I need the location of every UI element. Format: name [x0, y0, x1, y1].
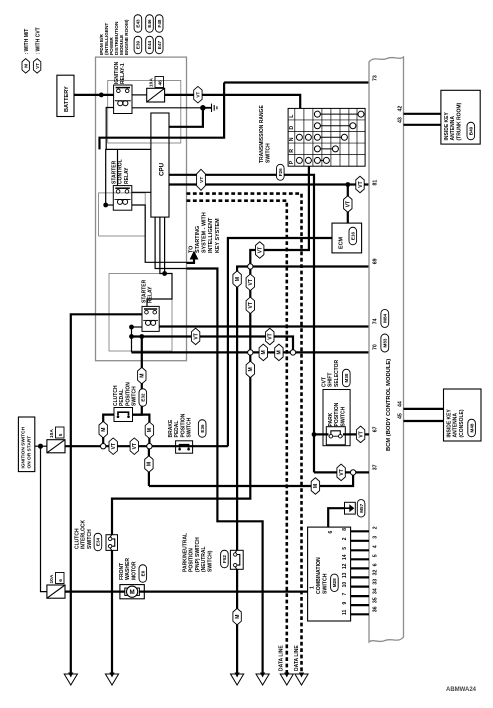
connector E39 — [134, 36, 142, 54]
svg-text:E47: E47 — [157, 40, 162, 49]
svg-text:5: 5 — [373, 554, 379, 557]
svg-text:37: 37 — [373, 464, 379, 470]
hexagon M on PNP branch — [233, 271, 241, 288]
svg-text:81: 81 — [373, 180, 379, 186]
svg-text:9: 9 — [342, 601, 348, 604]
svg-text:5: 5 — [342, 547, 348, 550]
svg-text:2: 2 — [373, 526, 379, 529]
svg-text:RELAY-1: RELAY-1 — [120, 63, 126, 84]
arrow to PNP — [235, 673, 240, 678]
hexagon M clutch left — [99, 421, 107, 438]
connector E46 — [146, 15, 154, 33]
wire M/T branch to pin 37 — [149, 472, 353, 486]
inside key antenna trunk room — [441, 90, 480, 144]
wire park switch to BCM pin 67 — [314, 433, 369, 435]
fuse 10A 5 — [47, 440, 65, 453]
legend hexagon VT : WITH CVT — [33, 59, 40, 74]
svg-text:CPU: CPU — [159, 162, 166, 176]
svg-text:E43: E43 — [136, 19, 141, 28]
hexagon M on pin37 branch — [311, 478, 319, 495]
connector E43 — [134, 15, 142, 33]
wire BCM 43 to trunk antenna — [404, 124, 441, 126]
connector M83 — [381, 334, 389, 352]
svg-text:INTELLIGENT: INTELLIGENT — [208, 217, 214, 253]
legend hexagon M : WITH M/T — [22, 59, 29, 74]
clutch pedal position switch — [114, 408, 133, 422]
IPDM sub-box starter control relay circuit — [99, 193, 146, 236]
wire BCM pin 70 net — [132, 351, 370, 353]
wire M/T park-neutral branch — [237, 267, 250, 551]
splice pin70 right — [290, 350, 295, 355]
svg-text:ENGINE ROOM): ENGINE ROOM) — [124, 19, 129, 55]
svg-text:F48: F48 — [157, 19, 162, 27]
svg-text:BCM (BODY CONTROL MODULE): BCM (BODY CONTROL MODULE) — [386, 359, 392, 451]
fuse 10A 6 — [47, 585, 65, 598]
svg-text:F52: F52 — [222, 555, 227, 563]
svg-text:BATTERY: BATTERY — [64, 86, 70, 112]
wire starter control relay coil return to starting system arrow — [132, 205, 187, 262]
svg-text:6: 6 — [328, 531, 334, 534]
svg-text:TRANSMISSION RANGE: TRANSMISSION RANGE — [259, 105, 265, 163]
svg-text:35: 35 — [373, 597, 379, 603]
wire ignition feed down to fuse 6 — [41, 446, 47, 591]
svg-text:VT: VT — [199, 177, 205, 183]
svg-text:VT: VT — [258, 247, 264, 253]
connector E32 — [139, 389, 147, 407]
wire CPU to BCM pin 81 and ECM — [169, 183, 369, 185]
svg-text:E39: E39 — [136, 40, 141, 49]
park neutral position switch — [230, 550, 243, 569]
wire data line CAN-L dashed — [187, 201, 287, 673]
svg-text:6: 6 — [58, 579, 64, 582]
wire starter control relay contact to CPU — [132, 191, 152, 193]
wire BCM pin 37 net — [314, 471, 369, 473]
svg-text:M: M — [140, 374, 146, 378]
svg-text:2: 2 — [342, 537, 348, 540]
svg-text:14: 14 — [342, 554, 348, 560]
svg-text:4: 4 — [373, 545, 379, 548]
svg-text:STARTER: STARTER — [112, 160, 118, 184]
svg-text:M38: M38 — [344, 373, 349, 382]
splice pin 37 — [350, 470, 355, 475]
svg-text:PARK: PARK — [328, 412, 334, 426]
svg-text:VT: VT — [35, 63, 40, 69]
IPDM sub-box ignition relay circuit — [108, 81, 181, 144]
junction ECM branch — [345, 182, 350, 187]
wire CPU pin to PNP feed — [155, 217, 186, 268]
wire splice B down to pin37 branch — [148, 446, 150, 486]
splice clutch B — [147, 444, 152, 449]
hexagon VT on ECM wire — [344, 196, 352, 213]
connector F48 — [155, 15, 163, 33]
ground symbol — [203, 107, 212, 109]
wire combination switch to M57 — [328, 508, 344, 527]
wire BCM 45 to console antenna — [404, 420, 444, 422]
svg-text:CLUTCH: CLUTCH — [75, 528, 81, 549]
wire coil junction link — [131, 327, 133, 352]
svg-text:34: 34 — [373, 588, 379, 594]
wire data line CAN-H dashed — [187, 194, 302, 673]
connector F52 — [221, 550, 229, 568]
svg-text:M57: M57 — [359, 503, 364, 512]
svg-text:CLUTCH: CLUTCH — [113, 385, 119, 406]
wire starter relay output to starter motor — [71, 314, 142, 672]
hexagon VT on CPU outputs — [197, 169, 206, 190]
svg-text:DATA LINE: DATA LINE — [294, 645, 300, 671]
wire TRS output to splices — [112, 166, 309, 535]
svg-text:F26: F26 — [278, 168, 283, 176]
hexagon VT on starter cut wire — [191, 328, 199, 345]
wire starter relay coil right to BCM pin 74 — [159, 325, 369, 327]
svg-text:VT: VT — [339, 469, 345, 475]
svg-text:13: 13 — [342, 572, 348, 578]
svg-text:POSITION: POSITION — [125, 382, 131, 406]
wire BCM 42 to trunk antenna — [404, 113, 441, 115]
wire BCM pin 69 net — [250, 265, 369, 267]
connector E6 — [139, 565, 147, 583]
svg-text:E36: E36 — [200, 424, 205, 433]
hexagon VT on starter cut wire b — [266, 328, 274, 345]
arrow to clutch interlock — [109, 673, 114, 678]
svg-text:SWITCH: SWITCH — [87, 529, 93, 549]
svg-text:M: M — [277, 350, 283, 354]
connector M57 to body harness — [345, 502, 356, 514]
svg-text:TO: TO — [188, 246, 194, 253]
connector F26 — [277, 164, 285, 180]
svg-text:VT: VT — [358, 431, 364, 437]
IPDM sub-box starter relay circuit — [109, 274, 172, 352]
svg-text:STARTER: STARTER — [142, 279, 148, 303]
wire ignition relay output to CPU — [169, 108, 203, 127]
connector E36 — [198, 420, 206, 438]
splice clutch A — [101, 444, 106, 449]
svg-text:POSITION: POSITION — [334, 402, 340, 426]
svg-text:PARK/NEUTRAL: PARK/NEUTRAL — [183, 533, 189, 572]
svg-text:VT: VT — [132, 443, 138, 449]
svg-text:VT: VT — [111, 443, 117, 449]
svg-text:FRONT: FRONT — [119, 563, 125, 580]
svg-text:N: N — [289, 137, 295, 141]
svg-text:E32: E32 — [141, 393, 146, 402]
arrow to data line L — [284, 673, 289, 678]
svg-text:WASHER: WASHER — [125, 558, 131, 580]
svg-text:ECM: ECM — [339, 237, 345, 249]
wire clutch interlock to ground arrow — [111, 550, 113, 672]
svg-text:36: 36 — [373, 606, 379, 612]
svg-text:SELECTOR: SELECTOR — [334, 359, 340, 387]
hexagon VT main b — [130, 438, 138, 455]
svg-text:M48: M48 — [469, 423, 474, 432]
svg-text:VT: VT — [196, 92, 201, 98]
connector M38 — [343, 369, 351, 387]
wire PNP switch to ground arrow — [236, 569, 238, 672]
svg-text:VT: VT — [193, 333, 199, 339]
svg-text:11: 11 — [342, 609, 348, 615]
svg-text:8: 8 — [342, 528, 348, 531]
hexagon M pin70 b — [275, 344, 283, 361]
svg-text:M: M — [261, 350, 267, 354]
svg-text:33: 33 — [373, 579, 379, 585]
wire ignition relay-1 coil feed — [106, 108, 113, 150]
svg-text:42: 42 — [398, 106, 404, 112]
svg-text:M84: M84 — [383, 313, 388, 322]
svg-text:PEDAL: PEDAL — [174, 421, 180, 438]
svg-text:VT: VT — [248, 302, 254, 308]
svg-text:69: 69 — [373, 258, 379, 264]
svg-text:M28: M28 — [332, 578, 337, 587]
wire to starting system with intelligent key — [187, 257, 195, 263]
battery — [57, 75, 74, 116]
front washer motor — [120, 585, 144, 599]
svg-text:E6: E6 — [141, 570, 146, 576]
hexagon M below pin70 splice — [246, 361, 254, 378]
svg-text:1: 1 — [310, 586, 316, 589]
svg-text:POSITION: POSITION — [189, 548, 195, 572]
svg-text:MOTOR: MOTOR — [131, 561, 137, 580]
svg-text:10A: 10A — [149, 78, 155, 87]
connector E47 — [155, 36, 163, 54]
svg-text:44: 44 — [398, 401, 404, 407]
svg-text:ANTENNA: ANTENNA — [453, 413, 459, 438]
ECM — [332, 223, 362, 253]
wire clutch switch left branch — [103, 415, 114, 447]
clutch interlock switch — [106, 535, 118, 551]
wire fuse 46 output through VT to transmission range switch — [165, 95, 301, 109]
svg-text:B49: B49 — [469, 126, 474, 135]
svg-text:RELAY: RELAY — [124, 167, 130, 184]
wire CPU pin to starter relay — [147, 217, 172, 306]
svg-text:PEDAL: PEDAL — [119, 389, 125, 406]
svg-text:M: M — [23, 64, 29, 68]
svg-text:45: 45 — [398, 413, 404, 419]
svg-text:10A: 10A — [49, 429, 55, 438]
svg-text:12: 12 — [342, 563, 348, 569]
wire ignition relay-1 coil to ground — [132, 107, 203, 109]
hexagon VT main a — [109, 438, 117, 455]
svg-text:(CONSOLE): (CONSOLE) — [459, 409, 465, 437]
wire battery to ignition relay-1 — [74, 94, 114, 96]
svg-text:M: M — [147, 462, 153, 466]
svg-text:SWITCH: SWITCH — [132, 386, 138, 406]
junction starter relay coil — [129, 325, 134, 330]
svg-text:SYSTEM - WITH: SYSTEM - WITH — [202, 212, 208, 253]
wire starter relay coil left — [132, 326, 143, 328]
svg-text:SWITCH): SWITCH) — [207, 550, 213, 572]
brake pedal position switch — [176, 441, 193, 453]
hexagon M above clutch switch — [138, 367, 146, 384]
connector M84 — [381, 309, 389, 327]
svg-text:M83: M83 — [383, 338, 388, 347]
IPDM E/R module box — [96, 57, 187, 361]
svg-text:STARTING: STARTING — [195, 226, 201, 253]
svg-text:VT: VT — [346, 201, 352, 207]
wire vertical battery branch — [100, 83, 225, 150]
svg-text:RELAY: RELAY — [148, 286, 154, 303]
svg-text:10A: 10A — [49, 574, 55, 583]
junction ignition feed — [38, 444, 43, 449]
svg-text:M: M — [313, 484, 319, 488]
svg-text:43: 43 — [398, 117, 404, 123]
hexagon VT on TRS output — [256, 242, 264, 259]
svg-text:3: 3 — [373, 536, 379, 539]
CVT shift selector box — [323, 390, 350, 446]
BCM body control module bar — [369, 57, 404, 642]
hexagon VT pin 37 — [337, 464, 345, 481]
hexagon M pin70 a — [259, 344, 267, 361]
wire CPU pin junction starter relay — [164, 217, 166, 273]
arrow to starter motor — [68, 673, 73, 678]
wire accessory feed to combination switch — [65, 590, 308, 592]
svg-text:E16: E16 — [351, 231, 356, 240]
svg-text:74: 74 — [373, 318, 379, 324]
combination switch box — [308, 527, 351, 621]
svg-text:SWITCH: SWITCH — [265, 143, 271, 163]
svg-text:IGNITION: IGNITION — [114, 61, 120, 84]
svg-text:: WITH CVT: : WITH CVT — [36, 27, 42, 54]
hexagon VT near BCM pin 81 — [356, 176, 364, 193]
hexagon VT variant a — [246, 274, 254, 291]
svg-text:(PNP) SWITCH: (PNP) SWITCH — [195, 537, 201, 572]
inside key antenna console — [444, 389, 482, 441]
wire branch to BCM pin 73 — [224, 81, 369, 83]
svg-text:VT: VT — [248, 279, 254, 285]
hexagon M below PNP — [233, 608, 241, 625]
wire IPDM to PNP column — [187, 269, 263, 673]
svg-text:R: R — [289, 149, 295, 153]
svg-text:INSIDE KEY: INSIDE KEY — [447, 408, 453, 437]
arrow to data line H — [299, 673, 304, 678]
wire ECM to brake switch chain — [228, 238, 332, 446]
svg-text:ON OR START: ON OR START — [26, 436, 32, 469]
svg-text:SWITCH: SWITCH — [340, 406, 346, 426]
wire CPU to park position switch — [169, 175, 314, 473]
splice pin69 — [248, 264, 253, 269]
svg-text:ABMWA24: ABMWA24 — [446, 687, 477, 693]
svg-text:SWITCH: SWITCH — [323, 573, 329, 594]
wire ignition relay-1 to fuse 46 — [132, 94, 147, 96]
svg-text:INTERLOCK: INTERLOCK — [81, 519, 87, 549]
svg-text:D: D — [289, 126, 295, 130]
splice pin70 left — [248, 350, 253, 355]
svg-text:KEY SYSTEM: KEY SYSTEM — [215, 218, 221, 253]
hexagon M splice B down — [145, 456, 153, 473]
svg-text:E34: E34 — [96, 537, 101, 546]
svg-text:P: P — [289, 160, 295, 164]
connector M28 — [331, 574, 339, 592]
junction ground node — [200, 105, 206, 111]
svg-text:BRAKE: BRAKE — [168, 419, 174, 437]
svg-text:32: 32 — [373, 570, 379, 576]
svg-text:10: 10 — [342, 582, 348, 588]
svg-text:5: 5 — [58, 433, 64, 436]
svg-text:VT: VT — [358, 181, 364, 187]
svg-text:73: 73 — [373, 75, 379, 81]
svg-text:70: 70 — [373, 344, 379, 350]
svg-text:E44: E44 — [147, 40, 152, 49]
svg-text:: WITH M/T: : WITH M/T — [24, 29, 30, 55]
connector E44 — [146, 36, 154, 54]
arrow to PNP feed — [260, 673, 265, 678]
svg-text:67: 67 — [373, 426, 379, 432]
svg-text:6: 6 — [373, 563, 379, 566]
svg-text:7: 7 — [342, 592, 348, 595]
hexagon VT variant b — [246, 297, 254, 314]
wire fuse5 to clutch-brake chain — [65, 445, 228, 447]
ignition switch — [18, 417, 34, 472]
svg-text:M: M — [101, 428, 107, 432]
junction starter control relay coil — [103, 203, 108, 208]
CPU box — [151, 113, 169, 217]
park position switch — [326, 427, 345, 445]
junction battery feed — [99, 93, 104, 98]
wire starter control to CVT park switch path — [132, 337, 294, 353]
svg-text:M: M — [235, 277, 241, 281]
svg-text:POSITION: POSITION — [180, 413, 186, 437]
svg-text:VT: VT — [268, 333, 274, 339]
svg-text:M: M — [248, 367, 254, 371]
wire ignition switch to fuse 5 — [35, 445, 47, 447]
svg-text:CONTROL: CONTROL — [118, 159, 124, 184]
hexagon VT on battery wire — [194, 86, 202, 103]
svg-text:INSIDE KEY: INSIDE KEY — [444, 111, 450, 140]
svg-text:46: 46 — [157, 80, 163, 86]
svg-text:CVT: CVT — [321, 377, 327, 387]
svg-text:E46: E46 — [147, 19, 152, 28]
hexagon VT pin 67 — [356, 426, 364, 443]
svg-text:DATA LINE: DATA LINE — [278, 645, 284, 671]
hexagon M splice B up — [145, 422, 153, 439]
svg-text:M: M — [130, 589, 135, 596]
svg-text:M: M — [147, 428, 153, 432]
wire CPU to starter control relay coil — [106, 149, 152, 205]
svg-text:M: M — [235, 615, 241, 619]
wire BCM 44 to console antenna — [404, 408, 444, 410]
fuse 10A 46 — [147, 88, 165, 102]
svg-text:IGNITION SWITCH: IGNITION SWITCH — [20, 426, 26, 468]
junction park switch feed — [312, 432, 317, 437]
svg-text:(TRUNK ROOM): (TRUNK ROOM) — [456, 102, 462, 140]
svg-text:COMBINATION: COMBINATION — [316, 557, 322, 594]
wire clutch switch M/T feed — [133, 337, 142, 415]
svg-text:(NEUTRAL: (NEUTRAL — [201, 546, 207, 572]
wire splice B up — [133, 415, 150, 447]
transmission range switch grid — [288, 108, 365, 166]
svg-text:SWITCH: SWITCH — [187, 417, 193, 437]
connector E34 — [94, 533, 102, 551]
svg-text:SHIFT: SHIFT — [328, 373, 334, 387]
wire to ECM — [347, 185, 349, 224]
wire starter control relay contact feed — [117, 149, 119, 185]
svg-text:ANTENNA: ANTENNA — [450, 116, 456, 141]
